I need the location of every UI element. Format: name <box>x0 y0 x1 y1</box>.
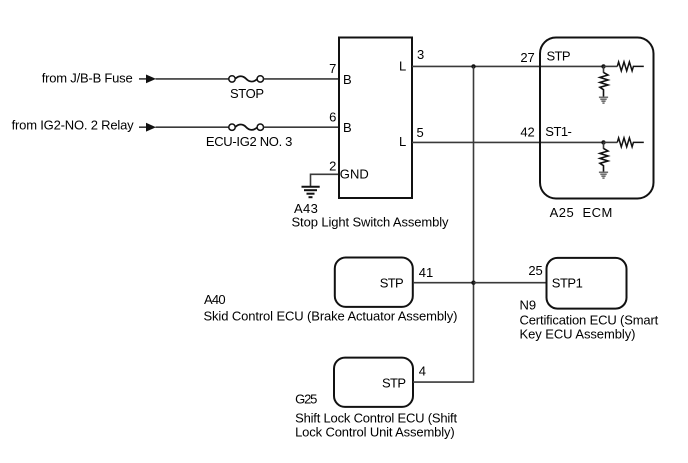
wire: fuse to pin 6 <box>264 126 338 128</box>
svg-text:A40: A40 <box>204 292 226 307</box>
junction dot ECM row 1 <box>601 64 605 68</box>
ECU N9 box <box>547 258 627 309</box>
wire: G25 pin 4 to bus <box>413 381 474 383</box>
svg-text:N9: N9 <box>520 297 537 312</box>
arrow into wire row 2 <box>139 123 156 132</box>
wire: fuse STOP to pin 7 <box>264 78 338 80</box>
svg-text:from J/B-B Fuse: from J/B-B Fuse <box>42 70 133 85</box>
svg-text:G25: G25 <box>295 391 317 406</box>
svg-text:Stop Light Switch Assembly: Stop Light Switch Assembly <box>292 214 450 229</box>
svg-text:STP: STP <box>380 275 404 290</box>
arrow into wire row 1 <box>139 75 156 84</box>
svg-text:from IG2-NO. 2 Relay: from IG2-NO. 2 Relay <box>12 118 135 133</box>
svg-text:STOP: STOP <box>230 86 264 101</box>
junction dot ECM row 2 <box>601 140 605 144</box>
wire: pin 2 to ground <box>311 174 339 186</box>
resistor (ECM row 1 vertical, pull-down) <box>600 66 608 96</box>
resistor (ECM row 1 horizontal) <box>604 62 644 71</box>
wire: arrow to fuse STOP <box>156 78 229 80</box>
svg-text:3: 3 <box>417 47 424 62</box>
wire: vertical bus <box>473 66 475 382</box>
svg-text:2: 2 <box>329 159 336 174</box>
junction dot on bus (pin3 row) <box>471 64 475 68</box>
svg-text:B: B <box>343 72 352 87</box>
svg-text:Key ECU Assembly): Key ECU Assembly) <box>520 326 636 341</box>
wire: arrow to fuse ECU-IG2 NO. 3 <box>156 126 229 128</box>
svg-text:A25 ECM: A25 ECM <box>550 205 613 220</box>
ground (ECM row 2) <box>599 172 608 178</box>
fuse STOP <box>229 76 264 82</box>
svg-text:L: L <box>399 59 406 74</box>
svg-text:B: B <box>343 120 352 135</box>
resistor (ECM row 2 horizontal) <box>604 138 644 147</box>
svg-text:GND: GND <box>340 167 369 182</box>
wire: pin 5 to ECM pin 42 <box>412 141 604 143</box>
resistor (ECM row 2 vertical, pull-down) <box>600 142 608 171</box>
wire: bus to N9 pin 25 <box>474 282 547 284</box>
svg-text:25: 25 <box>528 263 542 278</box>
svg-text:L: L <box>399 134 406 149</box>
svg-text:ST1-: ST1- <box>545 124 572 139</box>
svg-text:Lock Control Unit Assembly): Lock Control Unit Assembly) <box>295 424 455 439</box>
ground (ECM row 1) <box>599 97 608 103</box>
svg-text:5: 5 <box>417 125 424 140</box>
svg-text:41: 41 <box>419 265 433 280</box>
junction dot on bus (A40/N9 row) <box>471 281 475 285</box>
svg-text:6: 6 <box>329 110 336 125</box>
wire: pin 3 to ECM pin 27 (through junction) <box>412 65 604 67</box>
svg-text:ECU-IG2 NO. 3: ECU-IG2 NO. 3 <box>206 134 293 149</box>
ECU G25 box <box>334 358 413 407</box>
svg-text:42: 42 <box>520 124 534 139</box>
svg-text:STP: STP <box>382 376 406 391</box>
ECM A25 box <box>540 38 654 199</box>
svg-text:4: 4 <box>419 363 426 378</box>
wire: A40 pin 41 to bus <box>413 282 474 284</box>
fuse ECU-IG2 NO. 3 <box>229 124 264 130</box>
svg-text:27: 27 <box>520 50 534 65</box>
svg-text:STP1: STP1 <box>552 275 583 290</box>
switch A43 box <box>339 38 412 199</box>
svg-text:STP: STP <box>547 49 571 64</box>
ECU A40 box <box>335 258 413 307</box>
svg-text:7: 7 <box>329 61 336 76</box>
svg-text:Skid Control ECU (Brake Actuat: Skid Control ECU (Brake Actuator Assembl… <box>204 309 458 324</box>
ground (A43) <box>302 187 320 198</box>
